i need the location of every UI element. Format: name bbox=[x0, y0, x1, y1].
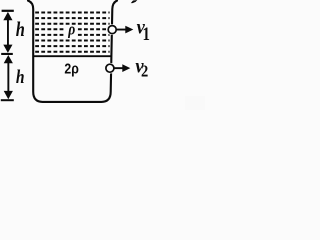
top hole circle bbox=[108, 26, 116, 34]
container outline bbox=[28, 1, 117, 102]
v1 arrow bbox=[116, 26, 133, 34]
svg-text:2: 2 bbox=[141, 63, 148, 81]
svg-text:1: 1 bbox=[143, 23, 150, 44]
bottom hole circle bbox=[106, 64, 114, 72]
svg-text:ρ: ρ bbox=[67, 20, 75, 39]
liquid dash pattern (density rho region) bbox=[35, 13, 109, 52]
lower h double arrow bbox=[4, 55, 13, 99]
svg-text:h: h bbox=[16, 66, 25, 87]
svg-text:2ρ: 2ρ bbox=[64, 60, 78, 76]
bottom hole halo bbox=[104, 63, 116, 74]
left measurement ticks bbox=[2, 10, 14, 12]
upper h double arrow bbox=[3, 12, 12, 53]
white halo behind rho label bbox=[65, 25, 77, 38]
svg-text:h: h bbox=[16, 18, 25, 41]
v2 arrow bbox=[114, 64, 130, 72]
interface line between liquids bbox=[33, 55, 111, 57]
stray mark top edge (cropped text remnant) bbox=[131, 0, 138, 3]
faint scan patch bottom right bbox=[185, 96, 205, 110]
top hole halo bbox=[106, 24, 118, 35]
